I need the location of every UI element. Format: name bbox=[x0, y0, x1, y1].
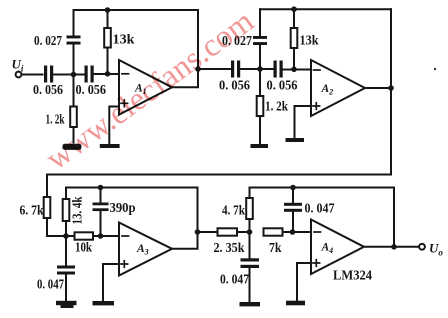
node A1 out bbox=[195, 66, 201, 72]
resistor R6 13.4k bbox=[63, 199, 70, 221]
wire R1 to minus node bbox=[107, 48, 109, 74]
wire plus input A2 to ground bbox=[295, 106, 312, 138]
wire plus input A4 to ground bbox=[297, 263, 311, 300]
node top 13k stage2 bbox=[291, 6, 297, 12]
op-amp A3 bbox=[119, 223, 172, 276]
wire C3 to top feedback line bbox=[73, 10, 75, 36]
svg-text:0. 056: 0. 056 bbox=[267, 79, 298, 94]
wire node B to C5 bbox=[260, 68, 273, 70]
wire C5 to minus node A2 bbox=[283, 69, 311, 71]
capacitor C8 0.047 bbox=[57, 266, 75, 269]
wire A1 output up to node bbox=[172, 69, 198, 87]
wire top feedback line A1 bbox=[74, 9, 199, 11]
svg-text:1. 2k: 1. 2k bbox=[46, 113, 65, 128]
svg-text:0. 047: 0. 047 bbox=[220, 273, 249, 288]
op-amp A1 bbox=[119, 60, 172, 115]
wire R9 to minus node bbox=[249, 219, 251, 232]
node A2 out bbox=[388, 85, 394, 91]
svg-text:Uo: Uo bbox=[429, 241, 443, 258]
wire A4 output bbox=[364, 246, 419, 248]
wire to C7 bbox=[100, 188, 102, 203]
wire C10 to ground bbox=[249, 268, 251, 302]
svg-text:13k: 13k bbox=[300, 34, 319, 49]
resistor R8 2.35k bbox=[218, 228, 238, 235]
node B bbox=[257, 66, 263, 72]
op-amp A4 bbox=[311, 220, 364, 275]
resistor R1 13k bbox=[104, 28, 111, 48]
wire node B up to C6 bbox=[259, 46, 261, 70]
wire 7k to A4 bbox=[283, 231, 312, 233]
wire feedback A3 down bbox=[197, 188, 199, 233]
resistor R7 10k bbox=[75, 232, 94, 239]
resistor R4 1.2k bbox=[257, 96, 264, 116]
svg-text:0. 047: 0. 047 bbox=[305, 202, 335, 217]
node A4 out bbox=[391, 244, 397, 250]
plus pin mark A4 bbox=[313, 260, 320, 267]
capacitor C5 0.056 bbox=[274, 61, 277, 78]
wire C1 to node A bbox=[54, 74, 74, 76]
wire to C9 bbox=[292, 188, 294, 203]
svg-text:0. 056: 0. 056 bbox=[33, 83, 63, 98]
minus pin mark A3 bbox=[122, 235, 129, 237]
svg-text:10k: 10k bbox=[75, 241, 92, 256]
capacitor C2 0.056 bbox=[85, 66, 88, 83]
resistor R10 7k bbox=[264, 228, 283, 235]
minus pin mark A2 bbox=[314, 69, 321, 71]
ground (filled) under R2 bbox=[63, 144, 82, 150]
svg-text:2. 35k: 2. 35k bbox=[214, 241, 245, 256]
wire top to R3 bbox=[293, 9, 295, 28]
node 390p top bbox=[98, 185, 104, 191]
resistor R5 6.7k bbox=[44, 197, 51, 218]
plus pin mark A1 bbox=[121, 100, 128, 107]
svg-text:Ui: Ui bbox=[12, 57, 24, 74]
ground under A3 plus bbox=[93, 301, 115, 305]
wire R3 to minus node bbox=[293, 48, 295, 69]
resistor R9 4.7k bbox=[246, 198, 253, 219]
node minus A2 bbox=[291, 67, 297, 73]
wire minus node down to C10 bbox=[249, 232, 251, 258]
minus pin mark A4 bbox=[314, 231, 321, 233]
svg-text:0. 056: 0. 056 bbox=[219, 79, 250, 94]
svg-text:13. 4k: 13. 4k bbox=[71, 196, 86, 224]
resistor R3 13k bbox=[291, 28, 298, 48]
ground under R4 bbox=[251, 144, 269, 148]
wire top feedback line A2 bbox=[260, 8, 391, 10]
svg-text:13k: 13k bbox=[113, 33, 135, 48]
node A3 out bbox=[195, 229, 201, 235]
svg-text:7k: 7k bbox=[269, 241, 282, 256]
ground under A4 plus bbox=[286, 301, 305, 306]
wire R5 to minus line bbox=[47, 218, 119, 236]
wire plus input A3 to ground bbox=[103, 264, 119, 301]
wire A2 output bbox=[365, 87, 391, 89]
svg-text:6. 7k: 6. 7k bbox=[20, 204, 44, 219]
svg-text:LM324: LM324 bbox=[333, 269, 372, 284]
wire feedback line A3 bbox=[66, 187, 197, 189]
wire node B down to R4 bbox=[259, 69, 261, 96]
ground under C10 bbox=[240, 302, 261, 306]
svg-text:0. 047: 0. 047 bbox=[37, 278, 64, 293]
capacitor C7 390p bbox=[93, 203, 109, 206]
svg-text:0. 027: 0. 027 bbox=[34, 34, 62, 49]
plus pin mark A3 bbox=[121, 261, 128, 268]
op-amp A2 bbox=[311, 60, 365, 116]
wire plus input A1 to ground bbox=[109, 107, 119, 145]
wire node A down to R2 bbox=[73, 75, 75, 107]
node minus net A3 bbox=[63, 233, 69, 239]
svg-text:1. 2k: 1. 2k bbox=[265, 100, 288, 115]
capacitor C1 0.056 bbox=[44, 66, 47, 83]
wire A1 out to C4 bbox=[198, 68, 231, 70]
ground under C8 bbox=[56, 301, 77, 305]
node minus A4 bbox=[290, 229, 296, 235]
node C7 bottom bbox=[98, 233, 104, 239]
svg-text:0. 056: 0. 056 bbox=[76, 83, 107, 98]
wire C6 to top line bbox=[259, 9, 261, 36]
wire R6 to minus node bbox=[65, 221, 67, 236]
wire input to C1 bbox=[22, 74, 43, 76]
capacitor C3 0.027 bbox=[67, 36, 81, 39]
ground under A1 plus bbox=[100, 144, 120, 148]
wire C2 to inverting node bbox=[94, 73, 119, 75]
svg-text:4. 7k: 4. 7k bbox=[222, 204, 245, 219]
wire top to R1 bbox=[107, 10, 109, 28]
speck bbox=[434, 68, 436, 70]
ground under A2 plus bbox=[286, 138, 305, 142]
node C9 top bbox=[290, 185, 296, 191]
wire C7 to minus line bbox=[100, 211, 102, 236]
node minus A1 bbox=[105, 71, 111, 77]
wire A2 out down to row 2 bbox=[47, 88, 391, 197]
wire node A up to C3 bbox=[73, 45, 75, 75]
wire R8 to node bbox=[237, 231, 250, 233]
wire R4 to ground bbox=[259, 116, 261, 144]
wire node A to C2 bbox=[74, 74, 85, 76]
svg-text:390p: 390p bbox=[110, 201, 136, 216]
node A bbox=[71, 72, 77, 78]
wire A3 out to R8 bbox=[198, 231, 218, 233]
capacitor C10 0.047 bbox=[241, 258, 260, 261]
wire feedback A4 down bbox=[393, 188, 395, 247]
capacitor C9 0.047 bbox=[284, 203, 302, 206]
plus pin mark A2 bbox=[313, 103, 320, 110]
terminal Uo bbox=[419, 244, 425, 250]
node top 13k bbox=[105, 7, 111, 13]
terminal Ui bbox=[16, 72, 22, 78]
capacitor C4 0.056 bbox=[231, 61, 234, 78]
wire minus node to C8 bbox=[65, 236, 67, 266]
node R9 bottom bbox=[247, 229, 253, 235]
wire feedback A1 bbox=[197, 10, 199, 69]
resistor R2 1.2k bbox=[70, 107, 77, 128]
wire C8 to ground bbox=[65, 275, 67, 302]
wire feedback line A4 bbox=[250, 188, 395, 199]
wire R6 top bbox=[65, 188, 67, 200]
capacitor C6 0.027 bbox=[253, 36, 267, 39]
wire R2 to ground bbox=[73, 127, 75, 143]
wire A3 output up to node bbox=[172, 232, 198, 249]
wire C9 to minus line bbox=[292, 212, 294, 232]
wire C4 to node B bbox=[241, 68, 261, 70]
wire feedback A2 bbox=[390, 9, 392, 88]
minus pin mark A1 bbox=[122, 73, 129, 75]
